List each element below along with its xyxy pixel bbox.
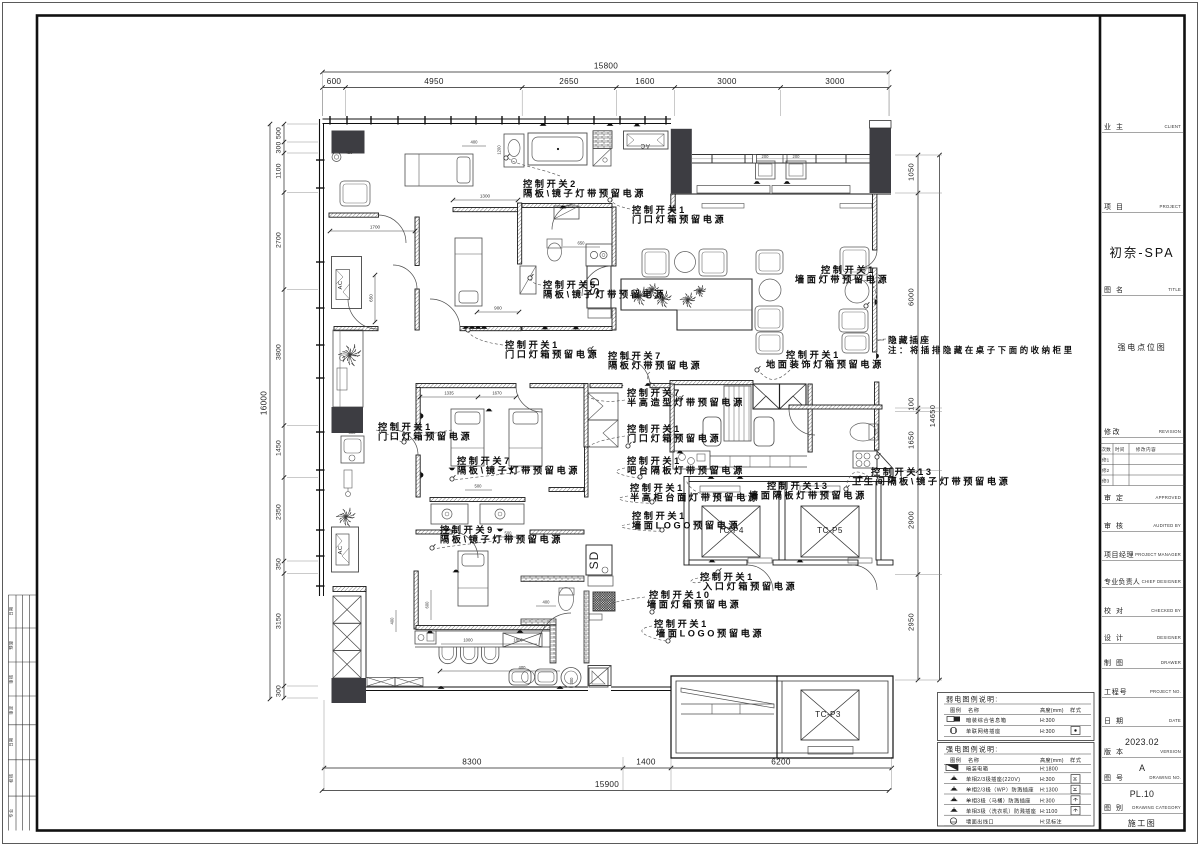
round chair: [561, 668, 581, 688]
svg-text:650: 650: [578, 241, 586, 246]
svg-text:控制开关1: 控制开关1: [654, 618, 709, 629]
svg-text:名称: 名称: [968, 756, 979, 764]
bar counter band: [710, 455, 807, 457]
SD shaft 1: [587, 266, 611, 308]
svg-text:DRAWER: DRAWER: [1161, 660, 1181, 665]
svg-text:H:300: H:300: [1040, 718, 1055, 724]
storefront mullions: [711, 155, 713, 164]
svg-text:样式: 样式: [1070, 756, 1082, 764]
svg-text:工程号: 工程号: [1104, 687, 1127, 696]
svg-text:350: 350: [276, 558, 283, 570]
bath2 vanity mirror: [554, 206, 579, 219]
entry door: [588, 666, 611, 686]
svg-text:400: 400: [519, 665, 527, 670]
entrance display shelf: [697, 186, 770, 194]
bath2 door arcs: [552, 204, 578, 230]
svg-text:项目经理: 项目经理: [1104, 550, 1134, 559]
sofa group B table: [759, 279, 781, 301]
tall closet left: [333, 330, 363, 407]
svg-text:墙面出线口: 墙面出线口: [966, 818, 994, 826]
bed 5: [458, 551, 488, 606]
right segment dimensions 1050/6000/100/1650/2900/2950: [917, 155, 919, 680]
svg-text:审 定: 审 定: [1104, 493, 1124, 502]
bathroom1 vanity: [504, 134, 524, 167]
svg-text:制 图: 制 图: [1104, 658, 1124, 667]
svg-text:墙面LOGO预留电源: 墙面LOGO预留电源: [656, 628, 764, 639]
TC-P3 inner divider: [776, 676, 778, 758]
svg-text:样式: 样式: [1070, 706, 1082, 714]
dim 900: [477, 311, 519, 313]
svg-text:单相3极（马桶）防溅插座: 单相3极（马桶）防溅插座: [966, 796, 1031, 804]
svg-text:A: A: [1139, 763, 1145, 773]
lift door arcs: [747, 565, 773, 591]
plants in planter: [630, 287, 649, 306]
AC closet bottom-left: [332, 527, 359, 572]
svg-text:500: 500: [276, 127, 283, 139]
legend row 3: [951, 786, 958, 790]
svg-text:控制开关1: 控制开关1: [700, 571, 755, 582]
svg-text:修改内容: 修改内容: [1136, 446, 1156, 453]
svg-text:1700: 1700: [370, 225, 381, 230]
diagonal wall corner: [877, 451, 893, 469]
left wall with mullions: [319, 119, 321, 596]
legend table weak current: [938, 693, 1095, 741]
dim 400: [462, 145, 486, 147]
wall horiz bath1 south: [453, 208, 518, 212]
wall halfheight tea west: [590, 384, 622, 388]
bottom total dimension 15900: [322, 790, 889, 792]
plant left small: [336, 508, 355, 527]
svg-text:8300: 8300: [462, 758, 482, 767]
svg-text:TC-P5: TC-P5: [817, 526, 843, 535]
svg-text:DRAWING CATEGORY: DRAWING CATEGORY: [1132, 805, 1181, 810]
TC-P3 block outline: [671, 676, 893, 758]
wall seg locker south: [585, 447, 589, 497]
svg-text:3000: 3000: [717, 77, 737, 86]
svg-text:地面装饰灯箱预留电源: 地面装饰灯箱预留电源: [766, 359, 884, 370]
svg-text:400: 400: [471, 140, 479, 145]
bed 1: [405, 154, 473, 186]
legend icon network socket: [950, 727, 956, 733]
suite north wall: [416, 384, 516, 388]
svg-text:审核: 审核: [8, 674, 15, 684]
svg-text:高度(mm): 高度(mm): [1040, 706, 1064, 714]
svg-text:时间: 时间: [1115, 446, 1125, 453]
svg-text:16000: 16000: [260, 391, 269, 415]
svg-text:暗装电箱: 暗装电箱: [966, 765, 988, 773]
svg-text:控制开关13: 控制开关13: [767, 480, 830, 491]
shower unit: [593, 149, 611, 167]
legend row 6: [950, 818, 956, 824]
sofa group B chair 1: [756, 250, 783, 274]
armchair upper-left: [340, 181, 370, 206]
svg-text:弱电图例说明:: 弱电图例说明:: [946, 695, 998, 704]
small fixtures left: [344, 470, 352, 488]
svg-text:吧台隔板灯带预留电源: 吧台隔板灯带预留电源: [627, 465, 745, 476]
svg-text:2350: 2350: [276, 504, 283, 520]
title block divider: [1099, 16, 1102, 830]
svg-text:1100: 1100: [276, 163, 283, 178]
svg-text:控制开关1: 控制开关1: [627, 455, 682, 466]
svg-text:预算: 预算: [8, 640, 15, 649]
svg-text:图 名: 图 名: [1104, 285, 1124, 294]
svg-text:15800: 15800: [594, 62, 618, 71]
east brick wall: [584, 591, 589, 663]
kitchenette right: [853, 451, 877, 468]
shaft block outer walls: [684, 477, 893, 482]
svg-text:2950: 2950: [907, 613, 916, 631]
column bottom-left: [332, 678, 367, 703]
svg-text:6200: 6200: [771, 758, 791, 767]
svg-text:修3: 修3: [1102, 478, 1110, 485]
svg-text:2700: 2700: [276, 232, 283, 248]
bottom segment dimensions 8300/1400/6200: [323, 767, 892, 769]
svg-text:AC: AC: [640, 142, 650, 149]
tea room east wall: [808, 384, 812, 452]
svg-text:半高柜台面灯带预留电源: 半高柜台面灯带预留电源: [630, 492, 760, 503]
dim 1000/1800: [441, 643, 537, 645]
bar counter front: [436, 630, 550, 632]
svg-text:设 计: 设 计: [1104, 633, 1124, 642]
door arc corridor: [348, 299, 378, 329]
column entrance-right: [870, 128, 892, 193]
sofa group B chair 3: [756, 332, 783, 354]
plant small: [694, 285, 706, 297]
svg-text:日 期: 日 期: [1104, 717, 1124, 725]
column entrance-left: [671, 129, 692, 194]
svg-text:隔板灯带预留电源: 隔板灯带预留电源: [608, 360, 702, 371]
svg-text:控制开关9: 控制开关9: [440, 524, 495, 535]
wall below SD1: [588, 309, 611, 318]
svg-text:控制开关1: 控制开关1: [627, 423, 682, 434]
svg-text:VERSION: VERSION: [1160, 749, 1181, 754]
door arc room2: [452, 532, 478, 558]
svg-text:校 对: 校 对: [1104, 606, 1124, 615]
svg-text:控制开关1: 控制开关1: [630, 482, 685, 493]
right total dimension 14650: [939, 155, 941, 680]
pantry north wall: [789, 405, 882, 409]
wall reception west: [612, 207, 616, 266]
legend row 4: [951, 797, 958, 801]
bath3 toilet: [559, 588, 574, 611]
svg-text:3800: 3800: [276, 344, 283, 360]
svg-text:墙面灯带预留电源: 墙面灯带预留电源: [795, 274, 889, 285]
svg-text:1000: 1000: [463, 638, 473, 643]
washer closet: [586, 244, 612, 266]
svg-text:CLIENT: CLIENT: [1165, 124, 1182, 129]
brick wall segs: [521, 619, 556, 625]
svg-text:H:见标注: H:见标注: [1040, 818, 1062, 826]
column left-middle: [332, 407, 364, 433]
escalator shaft boxes: [333, 596, 361, 623]
top wall with window mullions: [323, 118, 672, 120]
svg-text:半高造型灯带预留电源: 半高造型灯带预留电源: [627, 397, 745, 408]
svg-text:隔板\镜子灯带预留电源: 隔板\镜子灯带预留电源: [543, 289, 666, 300]
plant left big: [338, 344, 361, 366]
suite west wall: [416, 388, 420, 431]
svg-text:注：将插排隐藏在桌子下面的收纳柜里: 注：将插排隐藏在桌子下面的收纳柜里: [888, 345, 1075, 355]
svg-text:1335: 1335: [444, 391, 454, 396]
lobby door arc: [539, 613, 571, 645]
svg-text:单相2/3极插座(220V): 单相2/3极插座(220V): [966, 775, 1020, 783]
bar counter corner: [673, 451, 710, 469]
top segment dimensions: [323, 87, 890, 89]
door arc upper-left: [379, 215, 407, 243]
wall vert bath1-east: [518, 203, 522, 264]
TC-P3 shaft: [801, 690, 859, 740]
svg-text:300: 300: [569, 677, 574, 685]
svg-text:门口灯箱预留电源: 门口灯箱预留电源: [505, 349, 599, 360]
svg-text:控制开关7: 控制开关7: [627, 387, 682, 398]
svg-text:AC: AC: [338, 280, 344, 289]
svg-text:业 主: 业 主: [1104, 122, 1124, 131]
bed 4: [509, 409, 542, 466]
svg-text:REVISION: REVISION: [1159, 429, 1181, 434]
svg-text:900: 900: [494, 306, 502, 311]
bottom wall: [366, 686, 588, 688]
svg-text:PROJECT NO.: PROJECT NO.: [1150, 689, 1181, 694]
svg-text:1600: 1600: [635, 77, 655, 86]
svg-text:单相2/3极（WP）防溅插座: 单相2/3极（WP）防溅插座: [966, 786, 1034, 794]
floor light box 1: [753, 384, 780, 409]
svg-text:300: 300: [276, 685, 283, 697]
legend icon info box: [947, 717, 954, 722]
svg-text:15900: 15900: [595, 780, 619, 789]
svg-text:专业: 专业: [8, 808, 15, 817]
svg-text:H:300: H:300: [1040, 729, 1055, 735]
svg-text:名称: 名称: [968, 706, 979, 714]
svg-text:450: 450: [346, 150, 354, 155]
svg-text:门口灯箱预留电源: 门口灯箱预留电源: [632, 214, 726, 225]
dim 500 b: [495, 536, 521, 538]
svg-text:控制开关7: 控制开关7: [608, 350, 663, 361]
tea room north wall: [670, 381, 753, 385]
svg-text:3150: 3150: [276, 613, 283, 629]
dim 500 a: [465, 489, 492, 491]
svg-text:项 目: 项 目: [1104, 203, 1124, 211]
display stand B: [786, 161, 806, 179]
bar back counter: [415, 631, 436, 644]
left segment dimensions: [283, 124, 285, 699]
AC closet left: [332, 257, 362, 309]
bath3 north wall: [521, 576, 584, 582]
shaft inner rects: [700, 486, 740, 492]
svg-text:修2: 修2: [1102, 467, 1110, 474]
svg-text:墙面灯箱预留电源: 墙面灯箱预留电源: [647, 599, 741, 610]
svg-text:2650: 2650: [559, 77, 579, 86]
svg-text:门口灯箱预留电源: 门口灯箱预留电源: [378, 431, 472, 442]
TC-P4 block top door gaps: [746, 560, 748, 565]
svg-text:400: 400: [390, 617, 395, 625]
svg-text:AUDITED BY: AUDITED BY: [1153, 523, 1181, 528]
storefront entrance glazing: [692, 154, 870, 156]
svg-text:DESIGNER: DESIGNER: [1157, 635, 1181, 640]
svg-text:2023.02: 2023.02: [1125, 737, 1159, 747]
svg-text:CHECKED BY: CHECKED BY: [1151, 608, 1181, 613]
pantry toilet: [850, 423, 876, 441]
svg-text:控制开关10: 控制开关10: [649, 589, 712, 600]
socket symbols: [469, 326, 475, 328]
svg-text:版 本: 版 本: [1104, 747, 1124, 756]
svg-text:单相3极（洗衣机）防溅插座: 单相3极（洗衣机）防溅插座: [966, 807, 1036, 815]
svg-text:650: 650: [369, 294, 374, 302]
svg-text:强电点位图: 强电点位图: [1118, 342, 1167, 352]
right wall upper (hatched): [873, 194, 877, 250]
sofa group C chair 2: [839, 309, 868, 332]
svg-text:控制开关1: 控制开关1: [378, 421, 433, 432]
svg-text:单联网络插座: 单联网络插座: [966, 727, 1001, 735]
hidden socket note leader: [877, 339, 884, 341]
lift door sills: [748, 558, 772, 563]
vanity wall: [430, 498, 525, 502]
dim 1300: [453, 199, 518, 201]
dim 600 vert: [430, 590, 432, 620]
bar L wall horizontal: [416, 626, 550, 630]
dim 1700: [330, 230, 415, 232]
svg-text:修改: 修改: [1104, 427, 1121, 436]
bath2 walls: [522, 204, 612, 208]
tea bench left: [703, 417, 721, 446]
AC box top mid: [624, 131, 669, 149]
svg-text:PL.10: PL.10: [1130, 789, 1155, 799]
display cabinet xbox: [503, 633, 542, 647]
svg-text:墙面隔板灯带预留电源: 墙面隔板灯带预留电源: [749, 490, 867, 501]
door arc right wall: [859, 250, 877, 268]
svg-text:200: 200: [793, 154, 801, 159]
svg-text:600: 600: [349, 430, 357, 435]
svg-text:控制开关2: 控制开关2: [523, 178, 578, 189]
svg-text:隐藏插座: 隐藏插座: [888, 334, 931, 345]
column top-left: [332, 131, 365, 154]
svg-text:控制开关1: 控制开关1: [505, 339, 560, 350]
leader lines: [508, 158, 560, 176]
svg-text:施工图: 施工图: [1128, 818, 1157, 828]
wall below left column: [671, 194, 675, 211]
sofa group C chair 1: [840, 247, 869, 275]
east wall of suite: [584, 384, 588, 448]
signature strip table: [7, 595, 9, 831]
svg-text:400: 400: [543, 600, 551, 605]
svg-text:H:300: H:300: [1040, 777, 1055, 783]
svg-text:初奈-SPA: 初奈-SPA: [1109, 246, 1174, 260]
svg-text:100: 100: [907, 397, 916, 410]
tea room west wall: [670, 384, 674, 452]
svg-text:图例: 图例: [950, 756, 961, 764]
svg-text:控制开关1: 控制开关1: [786, 349, 841, 360]
svg-text:200: 200: [762, 154, 770, 159]
svg-text:6000: 6000: [907, 288, 916, 306]
svg-text:PROJECT MANAGER: PROJECT MANAGER: [1135, 552, 1181, 557]
stool: [332, 153, 341, 162]
svg-text:500: 500: [475, 484, 483, 489]
corridor south wall left: [334, 327, 378, 331]
dim 650 vertical: [374, 275, 376, 322]
legend row 5: [951, 807, 958, 811]
square basin unit: [589, 668, 608, 687]
svg-text:1050: 1050: [907, 163, 916, 181]
svg-text:图 号: 图 号: [1104, 774, 1124, 782]
svg-text:4950: 4950: [424, 77, 444, 86]
svg-text:H:1300: H:1300: [1040, 788, 1058, 794]
svg-text:隔板\镜子灯带预留电源: 隔板\镜子灯带预留电源: [523, 188, 646, 199]
floor light box 2: [780, 384, 807, 409]
dim 650b: [563, 246, 600, 248]
svg-text:隔板\镜子灯带预留电源: 隔板\镜子灯带预留电源: [457, 465, 580, 476]
room2 north wall: [416, 530, 452, 534]
tea counter: [724, 386, 751, 441]
elevator side wall: [365, 586, 367, 678]
small basin: [589, 614, 602, 620]
svg-text:审定: 审定: [8, 705, 15, 714]
planter box: [621, 279, 752, 330]
sofa group B chair 2: [755, 306, 783, 331]
svg-text:控制开关1: 控制开关1: [632, 204, 687, 215]
svg-text:H:300: H:300: [1040, 798, 1055, 804]
svg-text:图例: 图例: [950, 706, 961, 714]
svg-text:暗装综合信息箱: 暗装综合信息箱: [966, 716, 1007, 724]
svg-text:SD: SD: [587, 551, 601, 570]
svg-text:图 别: 图 别: [1104, 803, 1124, 812]
dim 400 c: [536, 605, 556, 607]
svg-text:TITLE: TITLE: [1168, 287, 1181, 292]
right wall lower segment: [875, 405, 879, 450]
svg-text:300: 300: [276, 142, 283, 154]
corridor lounge chairs: [509, 669, 531, 685]
svg-text:600: 600: [327, 77, 342, 86]
lockers: [588, 393, 618, 420]
wall vert mid-suite: [415, 217, 419, 266]
svg-text:隔板\镜子灯带预留电源: 隔板\镜子灯带预留电源: [440, 534, 563, 545]
dim 400 d: [440, 670, 560, 672]
svg-text:DATE: DATE: [1169, 718, 1181, 723]
sofa group A table: [675, 252, 696, 273]
sofa group C chair 3: [842, 333, 869, 353]
svg-text:2900: 2900: [907, 511, 916, 529]
bath2 shower: [520, 266, 536, 294]
svg-text:H:1800: H:1800: [1040, 767, 1058, 773]
bathtub: [528, 133, 587, 165]
shaft block south wall: [689, 560, 747, 565]
display xbox horizontal: [367, 678, 395, 687]
svg-text:CHIEF DESIGNER: CHIEF DESIGNER: [1142, 579, 1181, 584]
bench left: [341, 436, 364, 463]
wall horiz upper-left room: [329, 213, 379, 217]
sofa group A chair 1: [642, 249, 669, 277]
svg-text:墙面LOGO预留电源: 墙面LOGO预留电源: [632, 520, 740, 531]
revision table: [1100, 443, 1185, 445]
vanity left: [431, 504, 468, 524]
svg-text:1650: 1650: [907, 431, 916, 449]
svg-text:600: 600: [425, 601, 430, 609]
svg-text:控制开关1: 控制开关1: [632, 510, 687, 521]
svg-text:AC: AC: [338, 545, 344, 554]
sofa group C table: [845, 279, 869, 303]
TC-P5 shaft: [801, 506, 859, 557]
legend table strong current: [938, 743, 1095, 827]
svg-text:1670: 1670: [492, 391, 502, 396]
svg-text:DRAWING NO.: DRAWING NO.: [1149, 775, 1181, 780]
sofa group A chair 2: [699, 249, 727, 276]
dim 1335/1670: [420, 396, 516, 398]
rect below SD2: [588, 576, 613, 586]
svg-text:1450: 1450: [276, 440, 283, 456]
svg-text:TC-P3: TC-P3: [815, 710, 841, 719]
legend row 1: [946, 765, 958, 771]
bath2 toilet: [547, 239, 562, 248]
brick lightbox block: [593, 592, 615, 611]
bed 3: [451, 409, 484, 466]
wall seg above SD2: [549, 488, 584, 492]
